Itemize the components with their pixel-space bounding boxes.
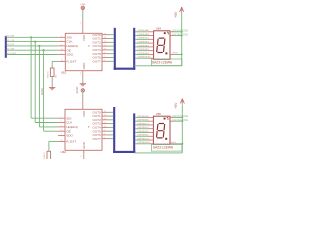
svg-text:LEDANODE: LEDANODE bbox=[172, 118, 189, 122]
svg-text:12: 12 bbox=[104, 119, 106, 121]
svg-text:13: 13 bbox=[104, 115, 106, 117]
svg-text:U$5: U$5 bbox=[156, 112, 162, 116]
svg-text:11: 11 bbox=[104, 45, 106, 47]
svg-text:LED_DIN: LED_DIN bbox=[5, 36, 14, 38]
svg-text:4: 4 bbox=[61, 126, 62, 128]
svg-text:6: 6 bbox=[104, 60, 105, 62]
svg-text:LED_LE1: LED_LE1 bbox=[5, 44, 15, 46]
svg-text:U$2: U$2 bbox=[61, 150, 67, 154]
svg-text:CLK: CLK bbox=[66, 121, 73, 125]
svg-text:R-EXT1: R-EXT1 bbox=[48, 71, 50, 78]
svg-text:9: 9 bbox=[104, 52, 105, 54]
svg-text:U$4: U$4 bbox=[156, 27, 162, 31]
svg-text:VDD: VDD bbox=[82, 110, 86, 117]
svg-text:2: 2 bbox=[61, 36, 62, 38]
svg-text:+5V: +5V bbox=[174, 102, 178, 109]
svg-text:AGND: AGND bbox=[41, 88, 44, 95]
svg-text:3: 3 bbox=[61, 40, 62, 42]
svg-text:SA23-12EWA: SA23-12EWA bbox=[153, 145, 174, 149]
svg-text:OUT7: OUT7 bbox=[93, 59, 102, 63]
svg-text:11: 11 bbox=[104, 122, 106, 124]
svg-text:wD/E0: wD/E0 bbox=[170, 142, 176, 144]
svg-text:8: 8 bbox=[80, 73, 81, 75]
svg-text:+: + bbox=[170, 34, 171, 36]
svg-text:VDD: VDD bbox=[82, 34, 86, 41]
svg-text:R-EXT2: R-EXT2 bbox=[44, 152, 46, 159]
svg-text:5: 5 bbox=[61, 134, 62, 136]
svg-text:2: 2 bbox=[80, 23, 81, 25]
svg-text:10: 10 bbox=[104, 126, 106, 128]
svg-text:DISPSEGF0: DISPSEGF0 bbox=[138, 49, 150, 51]
svg-text:LED_CLK: LED_CLK bbox=[5, 40, 15, 42]
svg-text:U$1: U$1 bbox=[61, 71, 67, 75]
svg-text:GND: GND bbox=[82, 62, 86, 70]
svg-text:uF8CP: uF8CP bbox=[172, 53, 179, 55]
svg-text:2: 2 bbox=[61, 117, 62, 119]
svg-text:R_EXT: R_EXT bbox=[66, 140, 76, 144]
svg-text:AGND: AGND bbox=[76, 86, 79, 93]
svg-text:LED_OE1: LED_OE1 bbox=[5, 49, 15, 51]
svg-text:23: 23 bbox=[61, 60, 63, 62]
svg-text:+5V: +5V bbox=[174, 11, 178, 18]
svg-text:9: 9 bbox=[104, 130, 105, 132]
svg-text:1K2: 1K2 bbox=[56, 75, 58, 78]
svg-text:5: 5 bbox=[61, 53, 62, 55]
svg-text:LED_DOUT: LED_DOUT bbox=[5, 53, 17, 55]
svg-text:SA23-12EWA: SA23-12EWA bbox=[152, 61, 173, 65]
svg-text:+: + bbox=[170, 31, 171, 33]
svg-text:4: 4 bbox=[61, 45, 62, 47]
svg-text:+5V1: +5V1 bbox=[80, 4, 86, 6]
svg-text:6: 6 bbox=[104, 137, 105, 139]
svg-text:SDO: SDO bbox=[66, 134, 73, 138]
svg-text:GND: GND bbox=[82, 141, 86, 149]
svg-text:12: 12 bbox=[104, 41, 106, 43]
svg-text:13: 13 bbox=[104, 37, 106, 39]
svg-text:DISPSEGF1: DISPSEGF1 bbox=[137, 135, 149, 137]
svg-text:14: 14 bbox=[104, 111, 106, 113]
svg-text:23: 23 bbox=[61, 140, 63, 142]
svg-text:8: 8 bbox=[81, 156, 82, 158]
svg-text:3: 3 bbox=[61, 121, 62, 123]
svg-text:7: 7 bbox=[104, 56, 105, 58]
svg-text:10: 10 bbox=[61, 49, 63, 51]
svg-text:10: 10 bbox=[61, 130, 63, 132]
svg-text:10: 10 bbox=[104, 49, 106, 51]
svg-text:OUT7: OUT7 bbox=[93, 137, 102, 141]
svg-text:+: + bbox=[170, 120, 171, 122]
svg-text:7: 7 bbox=[104, 134, 105, 136]
svg-text:R_EXT: R_EXT bbox=[67, 60, 77, 64]
svg-text:14: 14 bbox=[104, 33, 106, 35]
svg-text:LEDANODE: LEDANODE bbox=[172, 32, 189, 36]
svg-text:SDO: SDO bbox=[67, 53, 74, 57]
